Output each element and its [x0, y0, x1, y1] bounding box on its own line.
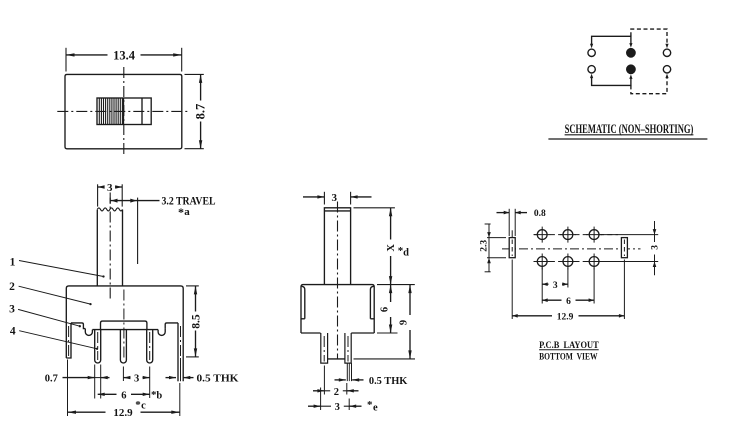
dimension 3 stem: outside arrows: [303, 196, 324, 198]
dimension 0.8: extension lines: [508, 209, 510, 236]
top view: knob outline: [97, 98, 151, 125]
schematic: terminal left-top: [588, 49, 595, 56]
svg-text:8.5: 8.5: [191, 314, 203, 329]
svg-text:0.5 THK: 0.5 THK: [197, 374, 240, 385]
part leader 3: leader line with dot: [18, 309, 80, 326]
side view: body bottom edges: [301, 332, 321, 334]
dimension 12.9: dimension line with arrows: [68, 411, 106, 413]
front view: pin 3 centerline: [149, 332, 151, 360]
svg-text:2: 2: [334, 387, 339, 398]
front view: bottom edge between notches: [92, 329, 158, 331]
svg-text:1: 1: [10, 256, 16, 268]
svg-text:8.7: 8.7: [194, 104, 208, 120]
svg-text:2.3: 2.3: [479, 240, 489, 252]
dimension 6: dimension line with arrows: [98, 393, 117, 395]
side view: left leg centerline: [323, 336, 325, 362]
dimension 13.4: extension lines: [65, 48, 67, 72]
side view: body outline: [301, 285, 374, 333]
dimension 13.4: dimension line with arrows: [66, 54, 108, 56]
front view: left semicircular notch: [85, 329, 92, 336]
dimension 3 column pitch: dimension line with arrows: [542, 283, 548, 285]
svg-text:12.9: 12.9: [113, 407, 133, 419]
svg-text:3: 3: [332, 192, 338, 204]
pcb layout: hole A3 extension line down: [593, 268, 595, 304]
pcb layout: right mounting slot: [621, 238, 627, 258]
svg-text:e: e: [373, 402, 378, 413]
dimension 0.5 THK: arrows: [166, 377, 177, 379]
svg-text:0.7: 0.7: [45, 374, 58, 385]
front view: terminal pin 2: [120, 330, 126, 363]
pcb layout: left slot extension line down: [511, 260, 513, 320]
schematic: terminal right-top: [663, 49, 670, 56]
side view dimension 3: extension lines: [320, 388, 322, 411]
front view: actuator stem sides: [96, 210, 98, 286]
dimension 3 row pitch: extension lines: [601, 234, 658, 236]
schematic: solid wire left-bottom to common-bottom: [592, 77, 631, 86]
front view: pin 1 centerline: [97, 332, 99, 360]
svg-text:a: a: [184, 206, 190, 218]
dimension 2.3: dimension line with outside arrows: [488, 224, 490, 272]
pcb layout: hole A1 with crosshair: [537, 230, 547, 240]
dimension 3.2 TRAVEL: leader to label: [138, 200, 160, 202]
pcb layout: left slot centerline stub: [511, 230, 513, 237]
svg-text:*: *: [178, 205, 184, 219]
side view: view centerline: [337, 202, 339, 359]
dimension 8.7: extension lines: [185, 73, 204, 75]
dimension 8.5: extension lines: [186, 285, 199, 287]
front view: right semicircular notch: [158, 329, 165, 336]
part leader 2: leader line with dot: [19, 286, 91, 304]
front view: center insulator block: [101, 321, 147, 330]
dimension 9: dimension line with arrows: [409, 285, 411, 315]
side view: right pin lines below leg: [346, 363, 348, 381]
dimension 8.5: dimension line with arrows: [195, 286, 197, 312]
front view: left leg centerline: [68, 326, 70, 356]
svg-text:13.4: 13.4: [113, 48, 136, 62]
top view: knob cap right edge: [123, 98, 125, 125]
side view: right mounting tab: [370, 286, 373, 319]
top view: vertical centerline: [123, 67, 125, 156]
front view: left mounting leg: [66, 323, 71, 358]
pcb layout: hole A2 with crosshair: [563, 230, 573, 240]
dimension 6: dimension line with arrows: [390, 285, 392, 302]
pcb layout: row 1 dashed centerline: [534, 234, 619, 236]
front view: right mounting leg inner edge: [177, 323, 179, 381]
front view: body outline with rounded top corners: [66, 286, 183, 381]
front view: pin 2 center extension line: [122, 367, 124, 382]
svg-text:b: b: [156, 390, 162, 401]
pcb layout: hole B1 with crosshair: [537, 257, 547, 267]
front view: 12.9 right extension line: [179, 383, 181, 416]
pcb layout: left mounting slot: [509, 238, 515, 258]
schematic: common terminal bottom (filled): [627, 65, 636, 74]
front view: body underside right overhang: [165, 323, 178, 329]
svg-text:12.9: 12.9: [557, 312, 574, 322]
dimension 3.2 TRAVEL: reference extension line: [137, 198, 139, 264]
top view: switch body outline: [65, 74, 182, 148]
dimension 3.2 TRAVEL: tick at stem centerline: [109, 198, 111, 204]
dimension X: dimension line with arrows: [390, 208, 392, 240]
side view dimension 3: outside arrows: [308, 405, 321, 407]
top view: knob hatched slider cap: [98, 98, 100, 124]
front view: right leg centerline: [180, 326, 182, 358]
top view: horizontal centerline: [57, 110, 190, 112]
svg-text:0.8: 0.8: [534, 209, 546, 219]
top view: knob inner divider line: [141, 98, 143, 125]
schematic: title underline: [565, 134, 694, 136]
side view: actuator stem: [324, 208, 350, 285]
side view: left mounting tab: [302, 286, 305, 319]
svg-text:BOTTOM VIEW: BOTTOM VIEW: [539, 351, 598, 362]
front view: body and pin 2 centerline: [123, 290, 125, 361]
pcb layout: horizontal centerline: [502, 248, 641, 250]
front view: stem centerline: [109, 193, 111, 300]
svg-text:2: 2: [9, 281, 15, 293]
side view: stem top cap line: [324, 210, 350, 212]
dimension 0.8: outside arrows: [497, 212, 510, 214]
dimension 3 row pitch: dimension line with outside arrows: [654, 221, 656, 242]
front view: pin 1 edge extension lines: [94, 365, 96, 399]
svg-text:9: 9: [399, 320, 410, 325]
schematic: terminal right-bottom: [663, 66, 670, 73]
svg-text:6: 6: [566, 297, 571, 307]
svg-text:X: X: [386, 244, 397, 252]
side view: leg bottom extension line: [354, 358, 416, 360]
dimension 6 pcb: dimension line with arrows: [542, 299, 561, 301]
svg-text:3: 3: [553, 281, 558, 291]
pcb layout: right slot extension line down: [623, 260, 625, 320]
pcb layout: right slot centerline dashes: [623, 240, 625, 257]
schematic: common terminal top (filled): [627, 48, 636, 57]
pcb layout: hole A2 extension line down: [567, 268, 569, 288]
svg-text:SCHEMATIC (NON–SHORTING): SCHEMATIC (NON–SHORTING): [565, 121, 694, 136]
svg-text:c: c: [141, 400, 146, 411]
side view: right leg centerline: [347, 336, 349, 362]
pcb layout: title underline: [539, 349, 599, 351]
dimension X: extension lines: [354, 207, 395, 209]
pcb layout: hole B3 with crosshair: [589, 257, 599, 267]
front view: terminal pin 1: [95, 330, 101, 363]
svg-text:4: 4: [10, 325, 16, 337]
dimension 3 stem width: extension lines: [97, 184, 99, 206]
dimension 8.7: dimension line with arrows: [200, 74, 202, 100]
schematic: dashed wire common-bottom to right-bottom: [631, 78, 667, 94]
side view dimension 2: outside arrows: [313, 390, 324, 392]
part leader 1: leader line with dot: [19, 261, 104, 277]
dimension 2.3: extension lines: [487, 237, 506, 239]
front view: right leg center extension line: [180, 358, 182, 381]
dimension 3 pin pitch: dimension line with arrows: [123, 377, 130, 379]
side view 0.5 THK: arrows: [335, 379, 346, 381]
svg-text:d: d: [403, 248, 409, 259]
front view: body underside left overhang: [71, 323, 85, 329]
svg-text:3: 3: [9, 304, 15, 316]
side view dimension 2: extension lines: [323, 366, 325, 395]
side view: left leg: [321, 333, 328, 363]
svg-text:6: 6: [379, 307, 390, 312]
side view: recess between legs: [328, 358, 345, 360]
pcb layout: hole A3 with crosshair: [589, 230, 599, 240]
schematic: dashed wire common-top to right-top: [631, 29, 667, 44]
svg-text:0.5 THK: 0.5 THK: [369, 376, 408, 387]
part leader 4: leader line with dot: [19, 331, 97, 349]
schematic: separator rule: [548, 138, 707, 140]
side view: body bottom extension line: [377, 332, 398, 334]
front view: pin 3 center extension line: [149, 367, 151, 399]
dimension 3.2 TRAVEL: dimension line with arrows: [110, 200, 137, 202]
pcb layout: hole A1 extension line down: [541, 268, 543, 304]
svg-text:3: 3: [651, 245, 661, 250]
pcb layout: hole B2 with crosshair: [563, 257, 573, 267]
svg-text:3: 3: [335, 402, 340, 413]
dimension 3 stem: extension lines: [323, 192, 325, 205]
svg-text:6: 6: [121, 390, 126, 401]
dimension 12.9 pcb: dimension line with arrows: [512, 315, 552, 317]
pcb layout: left slot centerline dashes: [511, 240, 513, 257]
svg-text:3: 3: [134, 374, 139, 385]
schematic: solid wire left-top to common-top: [592, 36, 631, 45]
svg-text:3: 3: [107, 182, 113, 194]
front view: 12.9 left extension line: [67, 360, 69, 417]
schematic: terminal left-bottom: [588, 66, 595, 73]
dimension 0.7: arrows and leader: [63, 377, 95, 379]
dimension 3 stem width: dimension line with arrows: [98, 186, 105, 188]
side view: right leg: [345, 333, 351, 363]
front view: terminal pin 3: [147, 330, 153, 363]
front view: stem break zigzag: [97, 208, 122, 211]
pcb layout: row 2 dashed centerline: [534, 261, 619, 263]
